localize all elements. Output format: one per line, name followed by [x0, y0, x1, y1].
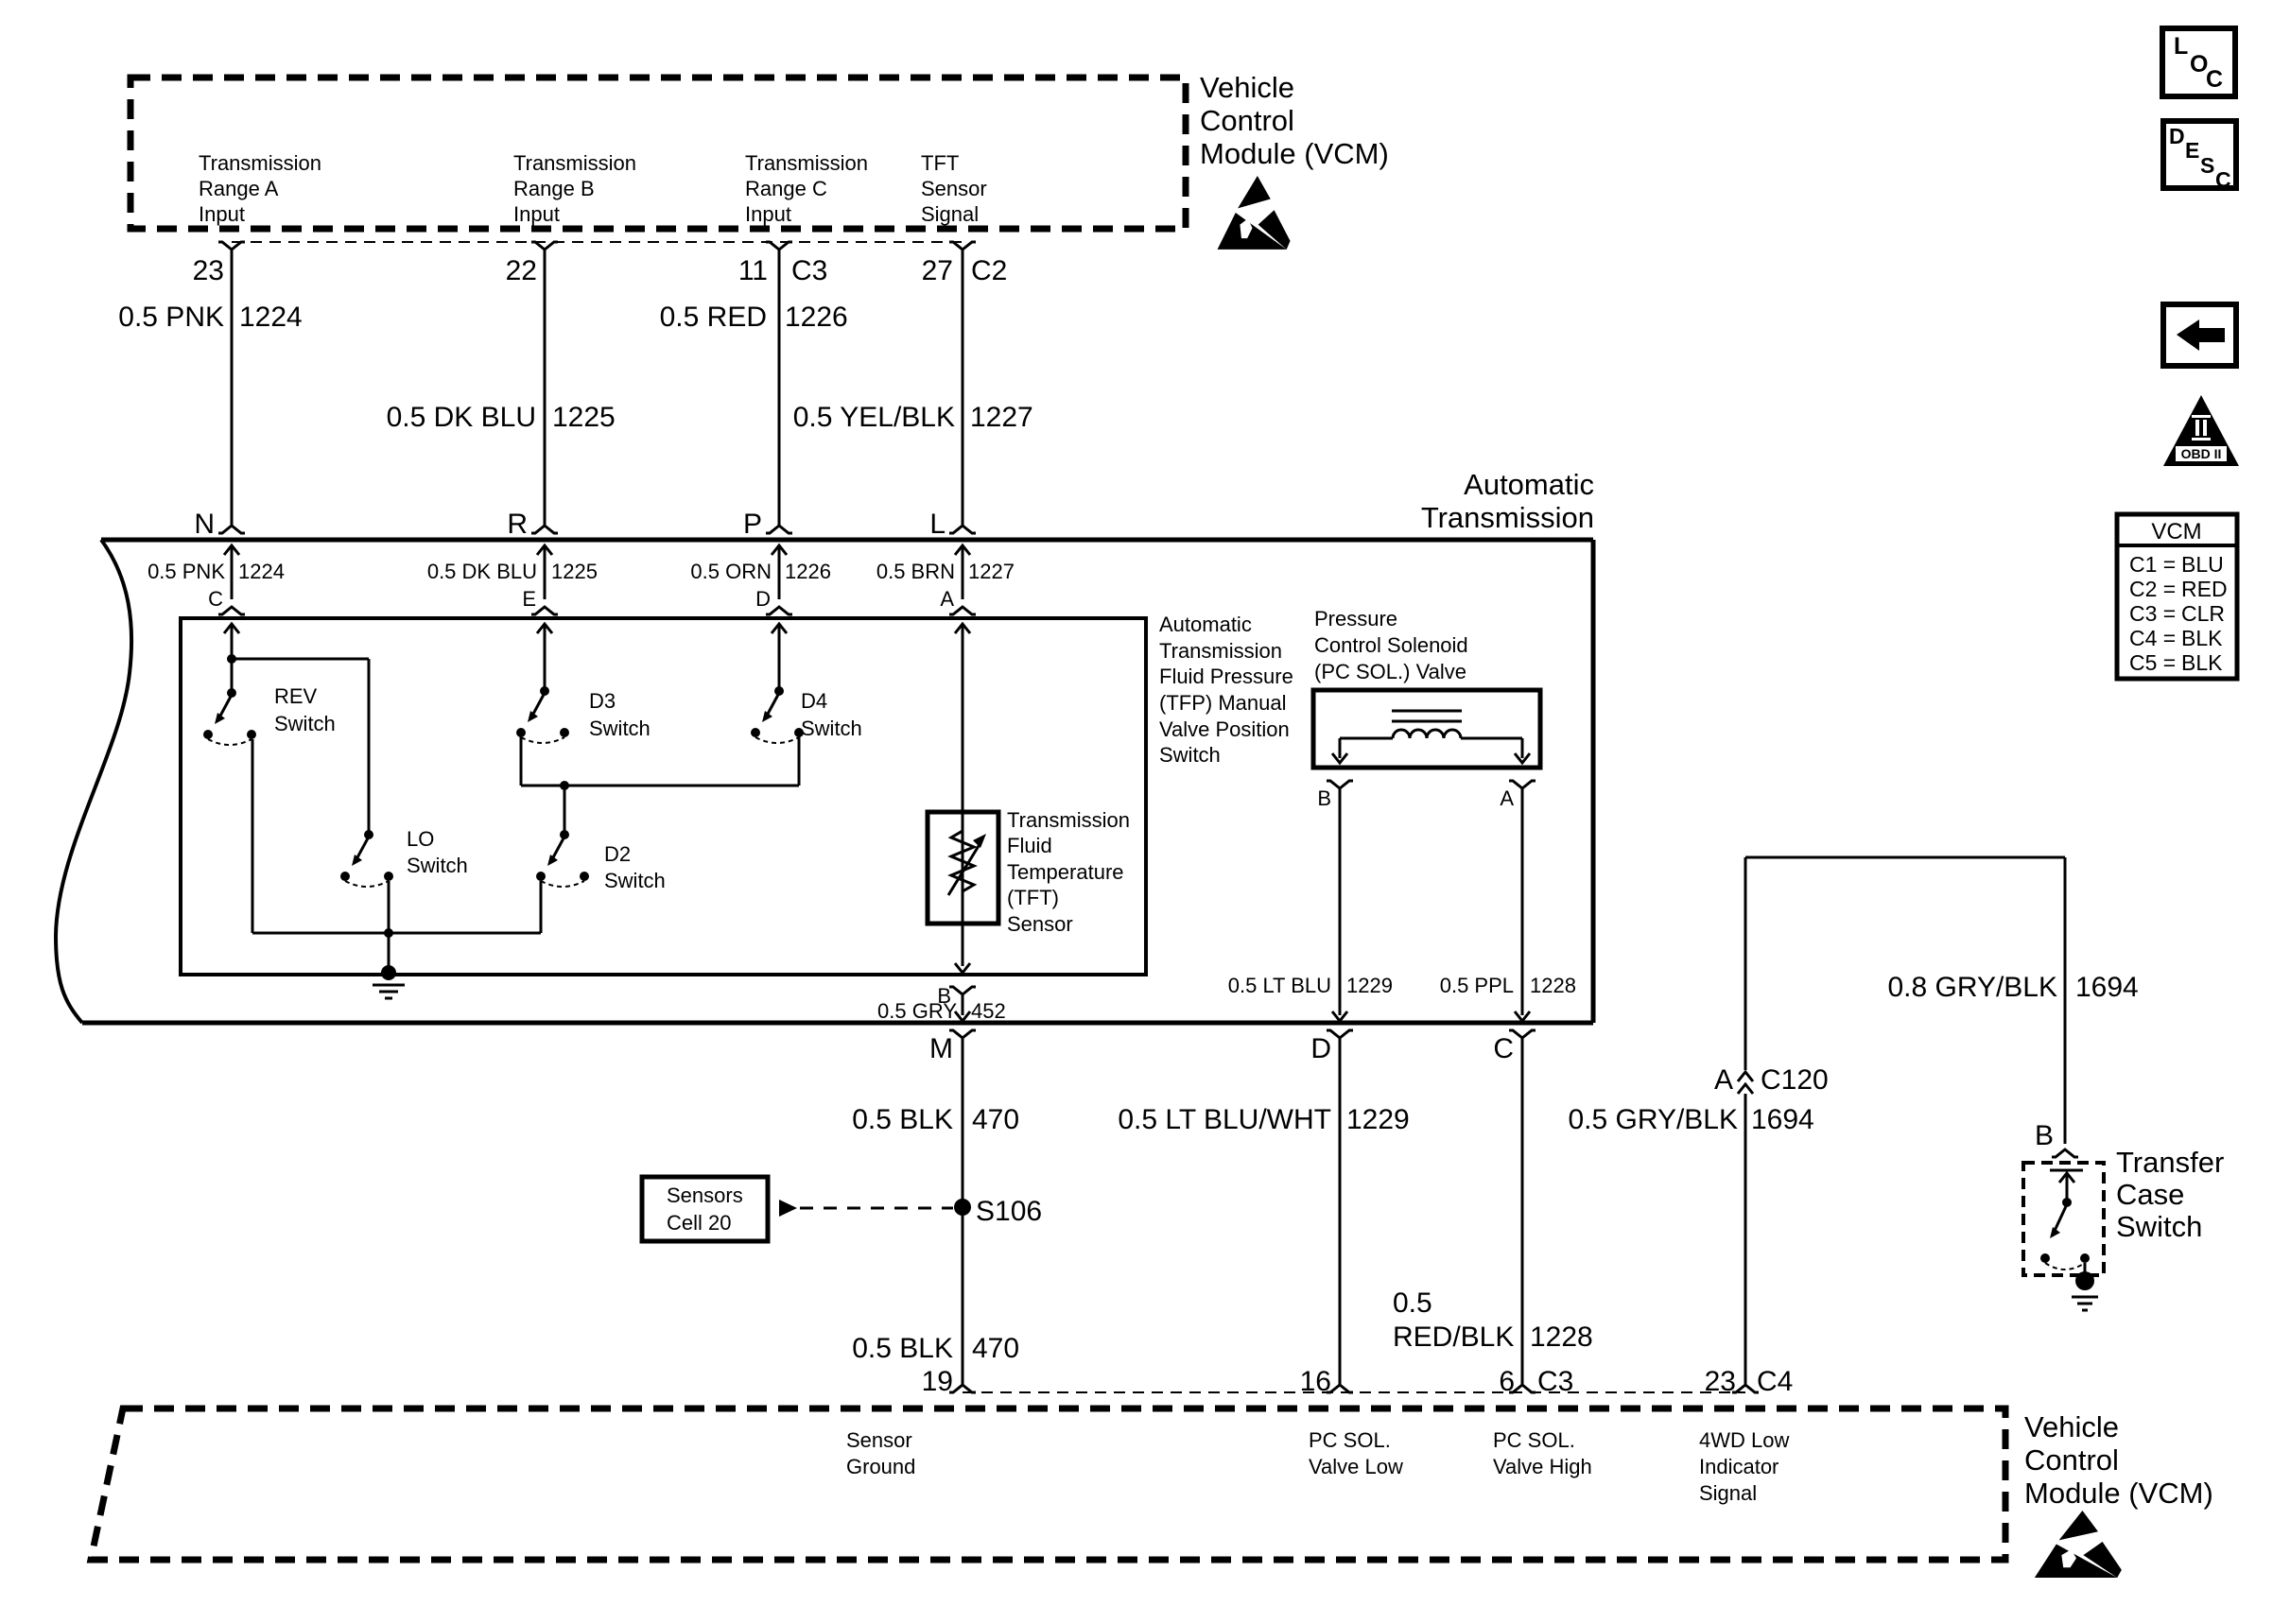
- svg-text:Module (VCM): Module (VCM): [2024, 1477, 2213, 1510]
- svg-text:B: B: [2035, 1120, 2054, 1151]
- svg-text:Ground: Ground: [846, 1455, 915, 1478]
- svg-text:Case: Case: [2116, 1178, 2184, 1211]
- svg-text:Transmission: Transmission: [513, 151, 636, 175]
- svg-text:M: M: [929, 1033, 953, 1064]
- svg-text:Input: Input: [513, 202, 560, 226]
- svg-text:Transmission: Transmission: [1421, 501, 1594, 534]
- svg-text:Fluid: Fluid: [1007, 834, 1052, 857]
- svg-text:Sensor: Sensor: [846, 1428, 912, 1452]
- svg-text:0.5 YEL/BLK: 0.5 YEL/BLK: [793, 402, 955, 433]
- svg-text:0.5 PNK: 0.5 PNK: [147, 560, 225, 583]
- svg-text:L: L: [929, 509, 946, 540]
- svg-text:Control: Control: [2024, 1443, 2119, 1477]
- svg-text:D: D: [2169, 124, 2185, 148]
- svg-text:D3: D3: [589, 689, 616, 713]
- svg-text:BLU: BLU: [2181, 552, 2224, 577]
- svg-text:Fluid Pressure: Fluid Pressure: [1159, 665, 1293, 688]
- svg-text:1227: 1227: [968, 560, 1015, 583]
- svg-text:Signal: Signal: [921, 202, 979, 226]
- svg-text:Valve Position: Valve Position: [1159, 717, 1290, 741]
- svg-text:E: E: [2185, 138, 2199, 163]
- svg-text:Input: Input: [199, 202, 245, 226]
- svg-text:0.5 LT BLU/WHT: 0.5 LT BLU/WHT: [1118, 1104, 1331, 1135]
- svg-text:B: B: [1317, 786, 1331, 810]
- svg-text:BLK: BLK: [2181, 626, 2223, 650]
- svg-text:Module (VCM): Module (VCM): [1200, 137, 1389, 170]
- svg-text:Sensor: Sensor: [921, 177, 987, 200]
- svg-text:1224: 1224: [239, 302, 303, 333]
- svg-text:0.5 PNK: 0.5 PNK: [118, 302, 224, 333]
- svg-text:470: 470: [972, 1104, 1019, 1135]
- svg-text:D4: D4: [801, 689, 827, 713]
- svg-text:A: A: [940, 587, 954, 611]
- svg-text:Transmission: Transmission: [1159, 639, 1282, 663]
- svg-text:Cell 20: Cell 20: [667, 1211, 731, 1235]
- svg-text:Switch: Switch: [604, 869, 666, 892]
- svg-text:27: 27: [922, 255, 953, 286]
- svg-text:1225: 1225: [551, 560, 598, 583]
- svg-text:S: S: [2200, 153, 2214, 178]
- svg-text:Pressure: Pressure: [1314, 607, 1397, 631]
- svg-text:Transmission: Transmission: [745, 151, 868, 175]
- svg-text:C2 =: C2 =: [2129, 577, 2176, 601]
- svg-text:Sensor: Sensor: [1007, 912, 1073, 936]
- svg-text:Vehicle: Vehicle: [2024, 1410, 2119, 1443]
- svg-text:C: C: [208, 587, 223, 611]
- svg-text:E: E: [522, 587, 536, 611]
- svg-text:C4 =: C4 =: [2129, 626, 2176, 650]
- svg-text:Valve Low: Valve Low: [1309, 1455, 1403, 1478]
- svg-text:19: 19: [922, 1366, 953, 1397]
- svg-text:1229: 1229: [1346, 1104, 1410, 1135]
- svg-text:PC SOL.: PC SOL.: [1493, 1428, 1575, 1452]
- svg-text:OBD II: OBD II: [2181, 446, 2222, 461]
- svg-text:(PC SOL.) Valve: (PC SOL.) Valve: [1314, 660, 1466, 683]
- svg-text:Automatic: Automatic: [1464, 468, 1594, 501]
- svg-text:D: D: [1310, 1033, 1331, 1064]
- svg-text:Range B: Range B: [513, 177, 595, 200]
- svg-text:1226: 1226: [785, 302, 848, 333]
- svg-text:0.5 PPL: 0.5 PPL: [1440, 974, 1514, 997]
- svg-text:0.5 ORN: 0.5 ORN: [690, 560, 772, 583]
- svg-text:L: L: [2174, 33, 2188, 60]
- svg-text:Control: Control: [1200, 104, 1294, 137]
- svg-text:VCM: VCM: [2151, 519, 2201, 544]
- svg-text:(TFT): (TFT): [1007, 886, 1059, 909]
- svg-text:0.5 BLK: 0.5 BLK: [852, 1104, 953, 1135]
- svg-text:0.5 DK BLU: 0.5 DK BLU: [387, 402, 536, 433]
- svg-text:Switch: Switch: [589, 717, 651, 740]
- svg-text:1227: 1227: [970, 402, 1033, 433]
- svg-text:0.5 GRY: 0.5 GRY: [877, 999, 957, 1023]
- svg-text:1228: 1228: [1530, 1322, 1593, 1353]
- svg-text:P: P: [743, 509, 762, 540]
- svg-text:Sensors: Sensors: [667, 1183, 743, 1207]
- svg-text:Switch: Switch: [2116, 1210, 2202, 1243]
- svg-text:1228: 1228: [1530, 974, 1576, 997]
- svg-text:0.5 BRN: 0.5 BRN: [876, 560, 955, 583]
- svg-text:C2: C2: [971, 255, 1007, 286]
- svg-text:C5 =: C5 =: [2129, 650, 2176, 675]
- svg-text:0.5 DK BLU: 0.5 DK BLU: [427, 560, 537, 583]
- svg-text:Range C: Range C: [745, 177, 827, 200]
- svg-text:1694: 1694: [1751, 1104, 1814, 1135]
- svg-text:C4: C4: [1757, 1366, 1793, 1397]
- svg-text:Switch: Switch: [801, 717, 862, 740]
- svg-text:C: C: [1493, 1033, 1514, 1064]
- svg-text:22: 22: [506, 255, 537, 286]
- svg-text:Range A: Range A: [199, 177, 279, 200]
- svg-text:1694: 1694: [2075, 972, 2139, 1003]
- svg-text:23: 23: [193, 255, 224, 286]
- svg-text:LO: LO: [407, 827, 434, 851]
- svg-text:Transmission: Transmission: [199, 151, 321, 175]
- svg-text:11: 11: [738, 255, 768, 286]
- svg-text:Input: Input: [745, 202, 791, 226]
- svg-text:C: C: [2215, 167, 2231, 192]
- svg-text:Switch: Switch: [274, 712, 336, 735]
- svg-text:D: D: [755, 587, 771, 611]
- svg-text:RED/BLK: RED/BLK: [1393, 1322, 1514, 1353]
- svg-text:Transfer: Transfer: [2116, 1146, 2224, 1179]
- svg-text:Signal: Signal: [1699, 1481, 1757, 1505]
- svg-text:Vehicle: Vehicle: [1200, 71, 1294, 104]
- svg-text:0.8 GRY/BLK: 0.8 GRY/BLK: [1887, 972, 2057, 1003]
- svg-text:PC SOL.: PC SOL.: [1309, 1428, 1391, 1452]
- svg-text:0.5 GRY/BLK: 0.5 GRY/BLK: [1568, 1104, 1738, 1135]
- svg-text:452: 452: [971, 999, 1006, 1023]
- svg-text:0.5 RED: 0.5 RED: [660, 302, 767, 333]
- svg-text:Control Solenoid: Control Solenoid: [1314, 633, 1468, 657]
- svg-text:0.5 BLK: 0.5 BLK: [852, 1333, 953, 1364]
- svg-text:R: R: [507, 509, 528, 540]
- svg-text:Switch: Switch: [407, 854, 468, 877]
- svg-text:A: A: [1714, 1064, 1733, 1096]
- svg-text:Valve High: Valve High: [1493, 1455, 1592, 1478]
- svg-text:C3: C3: [791, 255, 827, 286]
- svg-text:470: 470: [972, 1333, 1019, 1364]
- svg-text:D2: D2: [604, 842, 631, 866]
- svg-text:RED: RED: [2181, 577, 2228, 601]
- svg-text:Indicator: Indicator: [1699, 1455, 1778, 1478]
- svg-text:C1 =: C1 =: [2129, 552, 2176, 577]
- svg-text:1225: 1225: [552, 402, 616, 433]
- svg-text:S106: S106: [976, 1196, 1042, 1227]
- svg-text:0.5: 0.5: [1393, 1287, 1432, 1319]
- svg-text:C: C: [2206, 66, 2223, 93]
- svg-text:TFT: TFT: [921, 151, 959, 175]
- svg-text:(TFP) Manual: (TFP) Manual: [1159, 691, 1286, 715]
- svg-text:A: A: [1500, 786, 1514, 810]
- svg-text:Temperature: Temperature: [1007, 860, 1124, 884]
- svg-text:0.5 LT BLU: 0.5 LT BLU: [1228, 974, 1331, 997]
- svg-text:1224: 1224: [238, 560, 285, 583]
- svg-text:1226: 1226: [785, 560, 831, 583]
- svg-text:4WD Low: 4WD Low: [1699, 1428, 1789, 1452]
- svg-text:C3 =: C3 =: [2129, 601, 2176, 626]
- svg-text:Automatic: Automatic: [1159, 613, 1252, 636]
- svg-text:REV: REV: [274, 684, 318, 708]
- svg-text:BLK: BLK: [2181, 650, 2223, 675]
- svg-text:CLR: CLR: [2181, 601, 2225, 626]
- svg-text:Transmission: Transmission: [1007, 808, 1130, 832]
- svg-text:N: N: [194, 509, 215, 540]
- svg-text:1229: 1229: [1346, 974, 1393, 997]
- svg-text:C120: C120: [1761, 1064, 1829, 1096]
- svg-text:Switch: Switch: [1159, 743, 1221, 767]
